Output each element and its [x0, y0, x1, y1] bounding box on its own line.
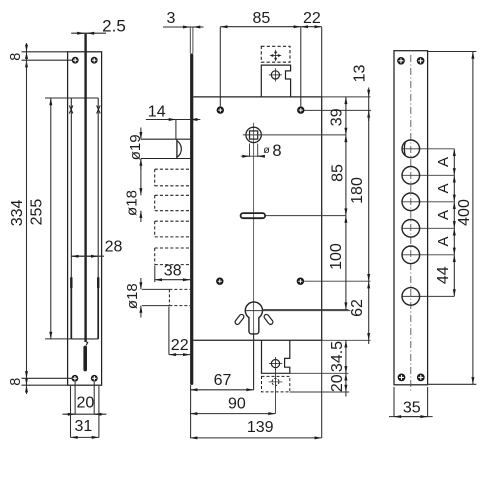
svg-text:39: 39: [328, 108, 345, 126]
dimension ø8 (follower square): [241, 144, 264, 157]
svg-text:38: 38: [164, 263, 182, 280]
plate screw bottom-left: [398, 374, 406, 382]
svg-text:31: 31: [75, 418, 93, 435]
lower dashed box (hidden cylinder body): [169, 289, 190, 305]
extension line from bottom screw to 90 dim: [275, 368, 277, 414]
svg-text:2.5: 2.5: [102, 16, 126, 35]
case corner weld marks top: [69, 106, 100, 114]
svg-text:90: 90: [228, 396, 246, 413]
dimension 400: [428, 52, 477, 385]
dimension 90: [190, 413, 275, 415]
svg-text:8: 8: [8, 378, 24, 386]
svg-text:334: 334: [9, 199, 26, 226]
svg-text:ø18: ø18: [124, 190, 141, 216]
dimension 35: [389, 387, 433, 417]
top dimension 85 / 22: [220, 27, 321, 107]
top cam piece: [261, 65, 290, 97]
svg-text:255: 255: [28, 199, 45, 226]
body screw top-right: [297, 106, 304, 113]
dimension 14 (latch projection): [146, 120, 201, 140]
plate screw top-left: [397, 57, 405, 65]
case corner weld marks bottom: [71, 277, 98, 288]
dimension 28 (case width): [71, 255, 104, 257]
extension line dashed box bottom to right dims: [290, 391, 350, 393]
svg-text:85: 85: [330, 164, 347, 182]
svg-text:A: A: [435, 210, 452, 220]
svg-text:67: 67: [214, 372, 232, 389]
svg-text:A: A: [435, 236, 452, 246]
dashed box below extension: [262, 376, 290, 392]
svg-text:8: 8: [272, 142, 281, 160]
svg-text:14: 14: [148, 104, 166, 121]
bottom extension screw: [269, 357, 282, 370]
oval slot (centre): [241, 213, 266, 218]
dashed cam travel box (top): [261, 46, 290, 62]
hole centre extension lines: [402, 149, 455, 297]
dimension ø19 (latch): [140, 128, 142, 170]
dimension 8 bottom-left: [22, 370, 72, 395]
bottom extension piece: [262, 340, 290, 373]
svg-text:139: 139: [247, 419, 274, 436]
latch bolt tail (edge view): [84, 33, 86, 341]
svg-text:400: 400: [456, 199, 473, 226]
svg-text:85: 85: [253, 10, 271, 27]
plate hole 2: [402, 167, 420, 185]
screw bottom-right: [91, 375, 98, 382]
lock body outline: [193, 97, 321, 340]
dimension 3 (faceplate thickness): [163, 26, 204, 28]
svg-text:44: 44: [435, 266, 452, 284]
hole 1 inner arc: [404, 142, 405, 157]
side plate outer rectangle: [68, 52, 102, 385]
svg-text:8: 8: [8, 53, 24, 61]
svg-text:A: A: [435, 183, 452, 193]
right-side extension lines: [263, 97, 371, 373]
euro cylinder profile (keyhole): [245, 302, 262, 334]
cylinder side slot left: [234, 313, 245, 325]
dimension line B (13/180/62): [368, 88, 370, 345]
body screw bottom-left: [216, 278, 223, 285]
cylinder centre extension line: [245, 310, 350, 312]
oval slot extension line: [265, 215, 346, 217]
body screw top-left: [217, 106, 224, 113]
dimension chain A/44: [453, 149, 455, 297]
dimension line A (39/85/100 + 34.5/20): [345, 97, 347, 397]
dashed target circle: [269, 375, 283, 389]
dimension 20 (screw spacing): [63, 382, 107, 414]
svg-text:A: A: [435, 157, 452, 167]
dimension 139: [190, 340, 322, 438]
follower centre line to dimension: [243, 134, 346, 136]
svg-text:22: 22: [171, 337, 189, 354]
plate screw top-right: [417, 57, 425, 65]
svg-text:13: 13: [351, 65, 368, 83]
dimension 67: [190, 335, 253, 439]
dimension 22 (bottom-left): [169, 307, 190, 355]
dimension 2.5 (latch tail thickness): [71, 32, 106, 34]
dimension 31 (side plate width): [71, 386, 99, 437]
plate hole 3: [402, 193, 420, 211]
svg-text:20: 20: [329, 374, 346, 392]
plate hole 4: [402, 220, 420, 238]
svg-text:62: 62: [349, 299, 366, 317]
vertical centerline through follower/cylinder: [253, 123, 255, 390]
svg-text:ø18: ø18: [124, 283, 141, 309]
faceplate extension lines for dim 3: [190, 27, 193, 53]
svg-text:20: 20: [77, 395, 95, 412]
svg-text:28: 28: [105, 239, 123, 256]
screw top-left: [72, 57, 79, 64]
latch bolt (front view): [141, 139, 190, 158]
compass (movement) symbol: [271, 51, 281, 61]
dimension 38: [155, 266, 190, 283]
lock case side (inner box): [71, 98, 98, 339]
svg-text:35: 35: [403, 399, 421, 416]
follower (square spindle hub): [246, 127, 261, 142]
dimension 255 (case height): [45, 98, 71, 339]
dimension 334 (side plate height): [26, 52, 28, 385]
svg-text:180: 180: [349, 177, 366, 204]
cylinder side slot right: [263, 313, 274, 325]
plate hole 5: [402, 246, 420, 264]
dimension 8 top-left: [22, 43, 72, 71]
latch spring: [83, 346, 87, 372]
screw top-right: [91, 57, 98, 64]
dashed lever tumbler stack (4 hidden circles, ø18): [155, 169, 190, 264]
plate hole 6: [402, 288, 420, 306]
top cam screw: [269, 68, 282, 81]
dimension ø18 upper: [140, 159, 142, 223]
svg-text:3: 3: [166, 10, 175, 27]
svg-text:ø19: ø19: [127, 134, 144, 160]
svg-text:100: 100: [328, 243, 345, 270]
latch spring hook: [84, 341, 87, 345]
plate centreline (dash-dot): [410, 55, 412, 392]
dimension ø18 lower: [141, 278, 170, 318]
plate hole 1: [402, 140, 420, 158]
svg-text:ø: ø: [263, 144, 270, 156]
plate screw bottom-right: [417, 374, 425, 382]
svg-text:22: 22: [303, 10, 321, 27]
screw bottom-left: [72, 375, 79, 382]
plate outline: [394, 51, 428, 385]
svg-text:34.5: 34.5: [329, 341, 346, 372]
faceplate (front, edge-on dark bar): [190, 53, 193, 385]
body screw bottom-right: [297, 278, 304, 285]
